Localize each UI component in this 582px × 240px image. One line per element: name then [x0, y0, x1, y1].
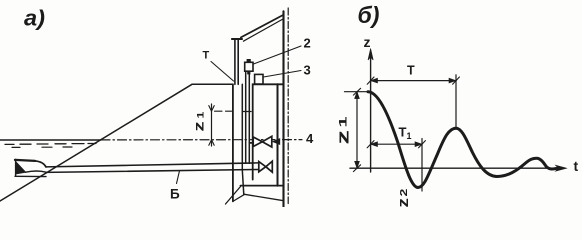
well right line — [242, 84, 244, 195]
svg-text:1: 1 — [338, 116, 350, 127]
valve 4 (upper bowtie) — [250, 136, 272, 147]
footing line — [241, 185, 284, 187]
standpipe above crest — [235, 40, 238, 84]
standpipe cap — [232, 38, 242, 40]
pipe (horizontal, top and bottom lines) — [46, 163, 258, 167]
well tip — [233, 195, 244, 202]
water symbol dashes — [5, 143, 96, 146]
embankment slope line — [0, 84, 192, 201]
leader T — [211, 62, 234, 82]
wall axis dash-dot vertical — [287, 8, 289, 204]
piezometric level mark in pipe — [243, 111, 252, 113]
valve on pipe (lower bowtie) — [259, 161, 273, 172]
svg-text:4: 4 — [306, 131, 314, 146]
arrow to label 4 — [273, 139, 280, 145]
dimension z1 (left) — [191, 104, 232, 146]
leader 3 — [264, 71, 302, 78]
leader 2 — [254, 46, 302, 64]
dimension T1 — [367, 125, 425, 148]
extension line at first minimum — [421, 139, 423, 192]
svg-text:б): б) — [358, 2, 380, 28]
wall face vertical — [282, 11, 284, 207]
dash-dot static level line — [101, 139, 302, 141]
t axis — [350, 167, 559, 169]
ground line right — [244, 194, 284, 201]
instrument 2 pipe — [246, 72, 250, 164]
svg-text:1: 1 — [196, 112, 206, 119]
dimension z1 (graph) — [334, 88, 369, 171]
svg-text:2: 2 — [304, 36, 311, 51]
water surface line — [0, 139, 101, 141]
svg-text:z: z — [395, 198, 412, 207]
svg-text:t: t — [574, 158, 579, 174]
svg-text:z: z — [191, 121, 207, 131]
leader B — [177, 171, 180, 184]
damped oscillation curve — [368, 92, 557, 188]
svg-text:3: 3 — [304, 63, 311, 78]
dimension T — [367, 64, 459, 85]
intake structure — [15, 160, 46, 177]
svg-text:2: 2 — [398, 189, 410, 197]
instrument 2 — [245, 59, 253, 74]
svg-text:Т: Т — [203, 50, 210, 62]
svg-text:Б: Б — [170, 187, 180, 202]
instrument 3 — [255, 74, 263, 84]
svg-text:z: z — [334, 130, 353, 144]
svg-text:а): а) — [24, 6, 45, 31]
svg-text:T: T — [407, 64, 415, 78]
wall top diagonal (double) — [241, 15, 283, 37]
ground line left — [226, 187, 241, 205]
well left line — [232, 84, 234, 201]
svg-text:Т1: Т1 — [399, 125, 412, 142]
instrument house — [253, 84, 284, 179]
z axis — [370, 54, 372, 172]
extension line at second peak — [455, 75, 457, 129]
crest line — [192, 83, 233, 85]
svg-text:z: z — [364, 34, 371, 50]
